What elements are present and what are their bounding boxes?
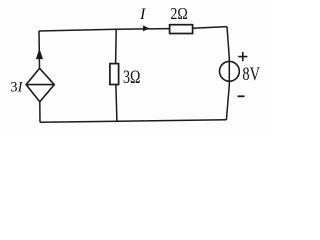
- wire top-right segment: [193, 27, 227, 29]
- wire left vertical: [38, 31, 41, 69]
- wire middle branch upper: [115, 29, 118, 63]
- svg-text:2Ω: 2Ω: [170, 4, 187, 23]
- minus sign of voltage source: [238, 95, 245, 97]
- wire bottom: [40, 120, 227, 123]
- svg-text:3Ω: 3Ω: [123, 67, 140, 88]
- wire right vertical: [226, 27, 229, 120]
- svg-text:8V: 8V: [242, 64, 260, 85]
- plus sign of voltage source: [238, 52, 247, 61]
- wire top-middle segment: [116, 28, 169, 31]
- svg-text:I: I: [139, 6, 146, 23]
- dependent source diamond middle line: [26, 84, 54, 86]
- wire top-left segment: [39, 29, 116, 31]
- svg-text:I: I: [17, 80, 24, 96]
- current arrow I on top wire: [143, 26, 148, 31]
- resistor R 2ohm: [170, 25, 193, 34]
- wire left lower: [39, 102, 41, 123]
- arrowhead of dependent source current (up): [36, 49, 43, 59]
- svg-text:3: 3: [10, 80, 17, 96]
- dependent current source U1 diamond: [26, 68, 54, 102]
- voltage source V1 circle: [220, 61, 240, 81]
- resistor R 3ohm: [110, 64, 119, 85]
- wire middle branch lower: [116, 85, 117, 121]
- wire through voltage source: [228, 62, 230, 82]
